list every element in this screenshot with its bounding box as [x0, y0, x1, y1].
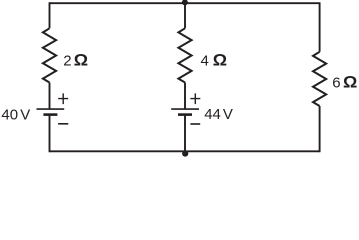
wire right upper (top rail to resistor R3)	[319, 2, 321, 52]
svg-text:V: V	[223, 106, 233, 123]
node dot bottom junction	[182, 151, 188, 157]
wire middle between R2 and battery V2	[184, 83, 186, 110]
plus sign of battery V2	[190, 93, 200, 104]
wire right lower (R3 to bottom rail)	[319, 106, 321, 152]
plus sign of battery V1	[58, 93, 68, 104]
wire middle upper (top node to resistor R2)	[184, 3, 186, 28]
wire left lower (battery V1 to bottom rail)	[49, 115, 51, 153]
battery V1 long plate (+)	[37, 108, 65, 110]
svg-text:Ω: Ω	[213, 50, 227, 69]
svg-text:6: 6	[332, 75, 340, 92]
minus sign of battery V2	[190, 123, 200, 125]
resistor R3 6-ohm zigzag	[313, 52, 326, 106]
wire middle lower (battery V2 to bottom node)	[184, 115, 186, 152]
svg-text:Ω: Ω	[74, 50, 88, 69]
battery V2 short plate (-)	[178, 113, 192, 116]
resistor R1 2-ohm zigzag	[43, 28, 56, 82]
wire left between R1 and battery V1	[49, 83, 51, 110]
battery V2 long plate (+)	[171, 108, 199, 110]
svg-text:4: 4	[201, 52, 209, 69]
svg-text:44: 44	[204, 106, 221, 123]
svg-text:V: V	[20, 106, 30, 123]
wire left upper (top rail to resistor R1)	[49, 2, 51, 28]
minus sign of battery V1	[58, 123, 68, 125]
resistor R2 4-ohm zigzag	[178, 28, 191, 82]
svg-text:2: 2	[63, 52, 71, 69]
wire top: node between left, middle, right branches	[50, 2, 320, 4]
svg-text:Ω: Ω	[343, 72, 357, 91]
battery V1 short plate (-)	[43, 113, 57, 116]
svg-text:40: 40	[1, 106, 18, 123]
wire bottom	[50, 150, 320, 152]
node dot top junction	[182, 0, 188, 5]
